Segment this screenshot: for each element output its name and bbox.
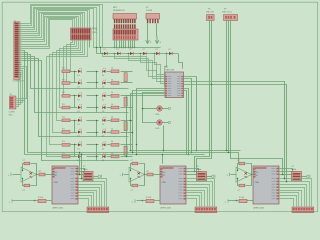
resistor RB1 <box>35 197 53 202</box>
svg-text:D2: D2 <box>102 111 104 113</box>
resistor RS2 <box>145 171 161 176</box>
resistor R4a <box>62 104 70 109</box>
svg-text:X?: X? <box>83 166 85 168</box>
label U2 <box>53 206 65 209</box>
diode chain D1-D6 <box>97 49 179 55</box>
wire chain to U1 <box>103 54 183 87</box>
IC U3 <box>160 166 186 204</box>
svg-text:CONN: CONN <box>146 10 153 12</box>
svg-text:LED: LED <box>156 128 160 130</box>
resistor R1a <box>62 68 70 73</box>
wire group 1 links <box>74 71 126 89</box>
svg-text:D2: D2 <box>102 87 104 89</box>
IC U2 <box>52 166 78 204</box>
opto diode D3a <box>78 92 83 101</box>
svg-text:D2: D2 <box>102 148 104 150</box>
opto diode D6a <box>78 129 83 138</box>
terminal TB3 <box>225 199 238 203</box>
wire row 6 <box>71 132 133 134</box>
resistor R5b <box>111 117 119 122</box>
resistor R7a <box>62 141 70 146</box>
svg-text:P3.0: P3.0 <box>255 172 259 174</box>
wire P1 down <box>194 21 213 176</box>
svg-text:74HC245: 74HC245 <box>165 70 175 72</box>
resistor R2b <box>111 79 119 84</box>
wire bus node <box>94 47 161 49</box>
wire P2 down <box>226 21 283 175</box>
wire bus J1 to row commons <box>22 51 129 161</box>
opto diode D5b <box>102 117 106 126</box>
resistor pack RN1 <box>71 28 92 40</box>
svg-text:CONN: CONN <box>9 112 15 114</box>
label U4 <box>254 206 266 209</box>
svg-text:AT89C2051: AT89C2051 <box>254 206 266 209</box>
terminal TX1 <box>93 175 102 178</box>
connector J1 <box>14 22 22 80</box>
label J1 <box>13 21 25 83</box>
dip switch SW1 <box>113 29 138 40</box>
resistor RF1b <box>22 175 37 192</box>
resistor RB3 <box>237 197 253 202</box>
wire bus to A3 <box>238 161 240 164</box>
label J3 <box>146 7 153 12</box>
svg-text:XTAL: XTAL <box>255 181 259 184</box>
op-amp A3 <box>236 167 252 182</box>
svg-text:1k: 1k <box>111 68 113 70</box>
svg-text:XTAL: XTAL <box>54 181 58 184</box>
opto diode D4b <box>102 104 106 113</box>
svg-text:P3.0: P3.0 <box>162 172 166 174</box>
svg-text:R?: R? <box>39 171 41 173</box>
label J2 <box>9 94 15 116</box>
resistor R7b <box>111 141 119 146</box>
opto diode D8b <box>102 153 106 162</box>
wire bus J1 to RN1 <box>22 5 103 49</box>
wire bus RN1 to input rows <box>47 41 90 157</box>
wire main bus <box>25 150 241 164</box>
wire bus L1 <box>130 140 132 142</box>
label P1 <box>206 9 215 14</box>
terminal TX2 <box>207 175 216 178</box>
svg-text:D2: D2 <box>102 160 104 162</box>
svg-text:1k: 1k <box>111 141 113 143</box>
svg-text:D?: D? <box>130 49 132 51</box>
svg-text:1k: 1k <box>111 104 113 106</box>
opto diode D5a <box>78 117 83 126</box>
opto diode D7a <box>78 141 83 150</box>
wire nest to chain <box>96 47 101 54</box>
opto diode D1a <box>78 68 83 77</box>
wire group 2 links <box>74 95 126 113</box>
svg-text:R 10k: R 10k <box>239 197 244 199</box>
resistor RG2 <box>124 97 127 106</box>
connector J3 <box>146 14 160 24</box>
svg-text:AT89C2051: AT89C2051 <box>53 206 65 209</box>
label RN1 <box>93 29 98 34</box>
resistor R6a <box>62 128 70 133</box>
wire group 3 links <box>74 120 126 137</box>
svg-text:D2: D2 <box>102 136 104 138</box>
op-amp A2 <box>129 167 145 182</box>
wire U1 inputs to grid <box>126 89 165 158</box>
resistor RG4 <box>124 146 127 155</box>
wire U2 to X1 <box>79 169 89 175</box>
svg-text:1k: 1k <box>111 79 113 81</box>
resistor RF3a <box>237 160 252 175</box>
resistor RB2 <box>143 197 161 202</box>
resistor R3a <box>62 92 70 97</box>
opto diode D2a <box>78 80 83 89</box>
wire J1 to J2 <box>17 67 27 107</box>
resistor RF1a <box>22 160 37 175</box>
wire row 8 <box>71 156 133 158</box>
terminal T2 <box>120 173 129 177</box>
resistor R1b <box>111 68 119 73</box>
svg-text:D1: D1 <box>78 75 80 77</box>
resistor RF2a <box>130 160 145 175</box>
svg-text:D2: D2 <box>102 99 104 101</box>
svg-text:X?: X? <box>292 166 294 168</box>
connector J2 <box>10 96 16 109</box>
label U1 <box>165 67 175 72</box>
opto diode D4a <box>78 104 83 113</box>
resistor RS1 <box>37 171 53 176</box>
wire bus to X1 <box>79 152 83 180</box>
svg-text:RN1: RN1 <box>93 29 98 31</box>
svg-text:1k: 1k <box>111 128 113 130</box>
svg-text:R 10k: R 10k <box>38 197 43 199</box>
svg-text:R 10k: R 10k <box>146 197 151 199</box>
op-amp A1 <box>21 167 37 182</box>
wire U4 to X3 <box>279 169 297 175</box>
resistor R2a <box>62 79 70 84</box>
terminal T3 <box>227 173 237 177</box>
resistor R8a <box>62 153 70 158</box>
wire U1 outputs <box>184 77 287 182</box>
wire row 5 <box>71 120 133 122</box>
svg-text:D?: D? <box>104 49 106 51</box>
svg-text:4MHz: 4MHz <box>83 169 88 171</box>
connector J4 <box>87 207 109 213</box>
svg-text:LED: LED <box>156 114 160 116</box>
resistor R6b <box>111 128 119 133</box>
svg-text:D1: D1 <box>78 124 80 126</box>
svg-text:4MHz: 4MHz <box>292 169 297 171</box>
wire group 4 links <box>74 144 126 161</box>
op-amp U1 IC body <box>165 72 184 98</box>
resistor R8b <box>111 153 119 158</box>
svg-text:TBLOCK: TBLOCK <box>206 12 215 14</box>
wire U2 to J4 <box>79 179 107 207</box>
svg-text:D?: D? <box>156 49 158 51</box>
svg-text:D?: D? <box>117 49 119 51</box>
svg-text:1k: 1k <box>111 92 113 94</box>
connector J6 <box>292 207 314 213</box>
LED D8 <box>156 120 171 130</box>
label RP2 <box>113 7 125 12</box>
wire U1 to LEDs <box>142 93 165 123</box>
wire A3 out <box>252 174 253 176</box>
svg-text:XTAL: XTAL <box>162 181 166 184</box>
svg-text:D2: D2 <box>102 75 104 77</box>
resistor RG1 <box>124 73 127 82</box>
svg-text:D1: D1 <box>78 148 80 150</box>
resistor RF3b <box>237 175 252 192</box>
wire U3 to X2 <box>187 169 202 175</box>
svg-text:D?: D? <box>143 49 145 51</box>
label U3 <box>161 206 173 209</box>
opto diode D8a <box>78 153 83 162</box>
svg-text:TBLOCK-4: TBLOCK-4 <box>222 12 233 14</box>
wire LED ground <box>163 126 165 152</box>
node block3 <box>282 174 288 183</box>
resistor RF2b <box>130 175 145 192</box>
wire row 4 <box>71 107 133 109</box>
opto diode D2b <box>102 80 106 89</box>
resistor R3b <box>111 92 119 97</box>
svg-text:X?: X? <box>197 166 199 168</box>
svg-text:1k: 1k <box>111 117 113 119</box>
terminal arrows <box>146 24 162 45</box>
svg-text:D1: D1 <box>78 99 80 101</box>
opto diode D1b <box>102 68 106 77</box>
svg-text:RESPACK-8: RESPACK-8 <box>113 9 125 12</box>
terminal TB2 <box>132 199 144 203</box>
opto diode D7b <box>102 141 106 150</box>
resistor R5a <box>62 117 70 122</box>
opto diode D6b <box>102 129 106 138</box>
wire U4 to J6 <box>279 179 312 207</box>
crystal X2 <box>197 166 207 181</box>
svg-text:P3.0: P3.0 <box>54 172 58 174</box>
crystal X3 <box>292 166 302 181</box>
resistor R4b <box>111 104 119 109</box>
terminal T1 <box>8 173 21 177</box>
svg-text:D1: D1 <box>78 111 80 113</box>
connector J5 <box>195 207 217 213</box>
connector P1 <box>207 15 215 21</box>
svg-text:D2: D2 <box>102 124 104 126</box>
svg-text:D1: D1 <box>78 136 80 138</box>
svg-text:4MHz: 4MHz <box>197 169 202 171</box>
terminal TB1 <box>9 199 36 203</box>
connector P2 <box>224 15 238 21</box>
svg-text:R?: R? <box>147 171 149 173</box>
LED D7 <box>156 106 171 116</box>
svg-text:AT89C2051: AT89C2051 <box>161 206 173 209</box>
wire row 7 <box>71 144 133 146</box>
opto diode D3b <box>102 92 106 101</box>
IC U4 <box>253 166 279 204</box>
resistor pack RP2 <box>113 14 137 24</box>
wire row 2 <box>71 82 133 84</box>
wire row 3 <box>71 95 133 97</box>
label P2 <box>222 9 233 14</box>
svg-text:D1: D1 <box>78 87 80 89</box>
crystal X1 <box>83 166 93 181</box>
wire row 1 <box>71 71 133 73</box>
wire RP2 to SW1 <box>114 24 136 28</box>
wire SW1 to bus <box>114 41 135 49</box>
svg-text:D?: D? <box>169 49 171 51</box>
terminal TX3 <box>302 175 311 178</box>
wire U3 to J5 <box>187 179 215 207</box>
resistor RG3 <box>124 122 127 131</box>
